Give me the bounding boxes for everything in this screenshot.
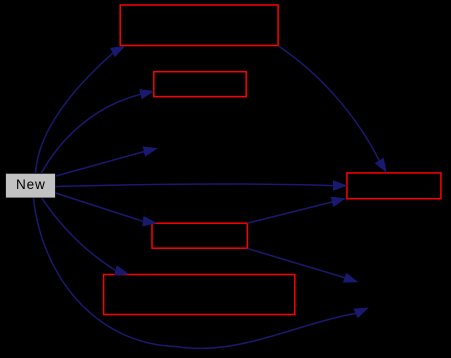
svg-text:New: New [16,177,46,192]
